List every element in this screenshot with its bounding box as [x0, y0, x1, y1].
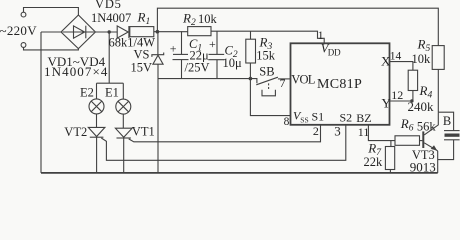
wire pin3 S2 to VT2 gate [101, 125, 345, 161]
svg-text:R1: R1 [137, 10, 151, 28]
thyristor VT2 [96, 114, 98, 128]
svg-text:VD5: VD5 [95, 0, 122, 11]
switch SB [250, 79, 257, 84]
svg-text:11: 11 [358, 125, 370, 139]
svg-text:10k: 10k [198, 12, 218, 26]
buzzer B top plate [444, 130, 460, 132]
diode VD5 [117, 26, 128, 38]
ground bottom rail [41, 172, 438, 174]
svg-text:B: B [443, 114, 451, 128]
lamp E2 [96, 83, 98, 99]
resistor R6 [395, 136, 420, 146]
wire T1 to bridge top [24, 8, 79, 16]
thyristor VT1 [122, 114, 124, 128]
svg-text:22k: 22k [364, 155, 384, 169]
svg-text:+: + [209, 37, 216, 51]
node A junction dot [156, 30, 160, 34]
node lamp feed junction [108, 30, 111, 33]
zener diode VS [157, 32, 159, 55]
svg-text:7: 7 [280, 78, 286, 90]
wire pin2 S1 to VT1 gate [129, 125, 321, 142]
svg-text:~220V: ~220V [0, 23, 37, 38]
wire zener to ground rail [157, 64, 159, 173]
wire buzzer bottom to emitter [438, 140, 454, 160]
wire bridge left corner to left rail [41, 31, 61, 33]
svg-text:+: + [170, 42, 177, 56]
svg-text:1N4007: 1N4007 [91, 11, 131, 25]
svg-text:12: 12 [391, 88, 403, 102]
svg-text:15V: 15V [131, 60, 153, 74]
svg-text:SS: SS [300, 115, 308, 124]
lamp E1 [122, 83, 124, 99]
lamp feed bar [97, 82, 124, 84]
svg-text:S2: S2 [340, 111, 353, 125]
wire VSS pin8 [250, 79, 290, 116]
svg-text:56k: 56k [417, 119, 437, 133]
VT3 emitter arrow [431, 145, 438, 150]
svg-text:2: 2 [313, 124, 319, 138]
svg-text:VOL: VOL [291, 73, 314, 87]
wire R5 bottom to collector node [437, 69, 439, 112]
svg-text:R6: R6 [400, 116, 414, 134]
svg-text:E1: E1 [105, 86, 119, 100]
capacitor C2 [216, 31, 218, 54]
wire top rail [157, 8, 438, 45]
resistor R1 [130, 27, 154, 37]
svg-text:15k: 15k [256, 48, 276, 62]
node Y junction dot [410, 99, 413, 102]
svg-text:14: 14 [390, 51, 402, 63]
svg-text:1N4007×4: 1N4007×4 [44, 64, 109, 79]
capacitor C1 [181, 31, 183, 54]
bridge rectifier VD1~VD4 diamond [61, 15, 95, 49]
wire pin12 Y to R4 bottom [390, 100, 413, 102]
svg-text:10μ: 10μ [223, 56, 243, 70]
svg-text:DD: DD [328, 48, 341, 58]
wire left rail down to ground [40, 32, 42, 173]
wire collector node to buzzer top [438, 112, 453, 130]
svg-text:1: 1 [318, 30, 324, 42]
resistor R4 [408, 70, 417, 90]
svg-text:VT2: VT2 [64, 125, 87, 139]
svg-text:10k: 10k [412, 52, 432, 66]
IC MC81P box [291, 43, 390, 125]
svg-text:R2: R2 [182, 11, 196, 29]
wire pin14 X to R4 top [390, 62, 413, 71]
node B junction dot [249, 77, 253, 81]
svg-text:MC81P: MC81P [317, 77, 362, 92]
svg-text:E2: E2 [80, 86, 94, 100]
svg-text:VT1: VT1 [132, 125, 155, 139]
buzzer B middle plate [445, 134, 460, 137]
wire bridge right corner to VD5 [95, 31, 117, 33]
resistor R2 [188, 27, 211, 36]
svg-text:Y: Y [382, 96, 392, 111]
svg-text:SB: SB [259, 64, 274, 78]
resistor R3 [250, 31, 252, 39]
wire lamp feed down [108, 32, 110, 83]
resistor R5 [432, 46, 444, 70]
bridge inner diode [63, 31, 95, 33]
buzzer B bottom plate [444, 139, 460, 141]
svg-text:S1: S1 [312, 110, 325, 124]
resistor R7 [390, 141, 392, 147]
wire pin11 BZ to R6 [368, 125, 395, 141]
wire R2 to VDD pin 1 [211, 31, 324, 43]
wire T2 to bridge bottom [24, 47, 79, 50]
wire R1 to R2 [154, 31, 188, 33]
svg-text:BZ: BZ [356, 111, 371, 125]
svg-text:8: 8 [284, 116, 290, 128]
terminal T2 [21, 43, 26, 48]
ground bus [158, 78, 250, 80]
svg-text:3: 3 [334, 123, 341, 138]
svg-text:/25V: /25V [185, 60, 210, 74]
transistor VT3 [422, 131, 424, 148]
terminal T1 [21, 12, 26, 17]
